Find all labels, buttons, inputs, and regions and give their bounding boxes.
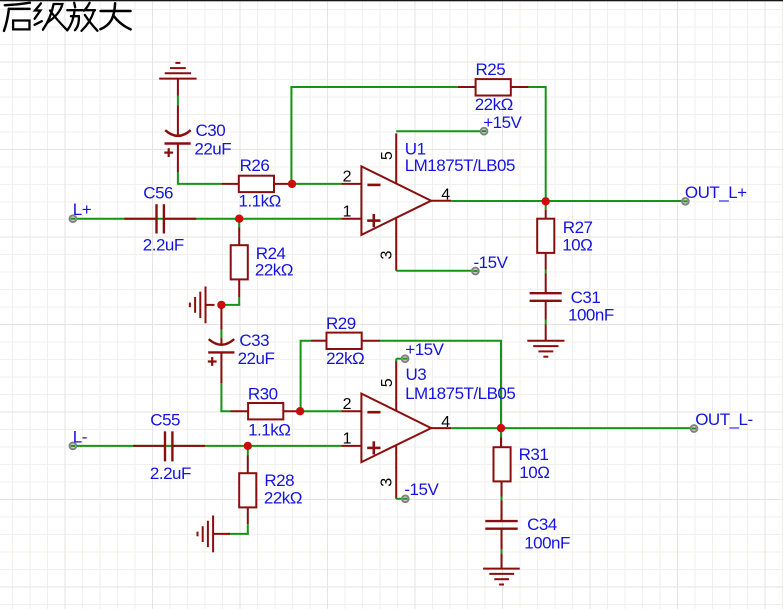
- svg-text:1.1kΩ: 1.1kΩ: [239, 192, 281, 211]
- junction node (L- / R28): [244, 442, 252, 450]
- capacitor C55: [133, 410, 205, 483]
- wire C30 to R26: [178, 172, 221, 184]
- svg-text:2.2uF: 2.2uF: [143, 235, 184, 254]
- svg-text:R29: R29: [326, 314, 356, 333]
- junction node (output / R27 / feedback): [542, 197, 550, 205]
- svg-text:C33: C33: [239, 331, 269, 350]
- svg-text:+15V: +15V: [483, 113, 522, 132]
- op-amp U3: [341, 361, 515, 499]
- wire feedback up (U3): [301, 341, 311, 412]
- wire L- input: [76, 445, 341, 447]
- svg-text:-15V: -15V: [404, 480, 439, 499]
- power pin +15V (U3): [396, 340, 444, 362]
- junction node (L+ / R24): [235, 215, 243, 223]
- svg-text:22uF: 22uF: [194, 140, 231, 159]
- wire R24 bottom to ground junction: [221, 304, 240, 306]
- ground GND2 (left-pointing earth): [190, 287, 215, 324]
- resistor R31: [494, 428, 550, 521]
- port L-: [70, 427, 87, 449]
- svg-text:OUT_L+: OUT_L+: [685, 183, 747, 202]
- char 级: [35, 3, 41, 18]
- svg-text:5: 5: [379, 378, 396, 387]
- power pin +15V (U1): [396, 113, 522, 134]
- svg-text:3: 3: [379, 251, 396, 260]
- capacitor C34: [485, 515, 570, 569]
- svg-text:4: 4: [441, 414, 450, 431]
- wire pin2 net (U3): [300, 410, 341, 412]
- svg-text:1.1kΩ: 1.1kΩ: [248, 420, 290, 439]
- capacitor C30 (polarized) with top ground GND1: [164, 79, 231, 172]
- char 后: [5, 3, 30, 5]
- port OUT_L-: [691, 410, 753, 432]
- svg-text:R28: R28: [264, 471, 294, 490]
- svg-text:C30: C30: [196, 121, 226, 140]
- wire output net OUT_L+: [451, 200, 682, 202]
- svg-text:1: 1: [343, 431, 352, 448]
- svg-text:10Ω: 10Ω: [562, 236, 592, 255]
- svg-text:100nF: 100nF: [568, 305, 614, 324]
- port L+: [70, 200, 92, 222]
- svg-text:100nF: 100nF: [524, 533, 570, 552]
- resistor R28: [239, 446, 302, 534]
- svg-text:2.2uF: 2.2uF: [150, 464, 191, 483]
- svg-text:22kΩ: 22kΩ: [264, 489, 302, 508]
- ground GND3: [527, 341, 564, 357]
- svg-text:L-: L-: [73, 427, 87, 446]
- capacitor C33 (polarized): [208, 308, 275, 383]
- svg-text:1: 1: [343, 204, 352, 221]
- svg-text:LM1875T/LB05: LM1875T/LB05: [405, 156, 515, 175]
- resistor R27: [537, 201, 592, 273]
- ground GND1 bars: [159, 63, 196, 79]
- svg-text:L+: L+: [73, 200, 92, 219]
- junction node (R30 / pin2 / feedback U3): [296, 407, 304, 415]
- wire pin2 net: [292, 183, 341, 185]
- svg-text:LM1875T/LB05: LM1875T/LB05: [405, 384, 515, 403]
- resistor R29: [311, 314, 380, 368]
- svg-text:10Ω: 10Ω: [519, 463, 549, 482]
- svg-text:C55: C55: [150, 410, 180, 429]
- svg-text:2: 2: [343, 169, 352, 186]
- resistor R25: [458, 60, 529, 114]
- svg-text:C34: C34: [527, 515, 557, 534]
- wire net L+ input horizontal: [76, 218, 341, 220]
- ground GND4: [483, 569, 520, 585]
- svg-text:22kΩ: 22kΩ: [326, 349, 364, 368]
- resistor R26: [221, 156, 292, 210]
- capacitor C31: [530, 274, 614, 341]
- svg-text:OUT_L-: OUT_L-: [695, 410, 752, 429]
- svg-text:22uF: 22uF: [238, 349, 275, 368]
- svg-text:R26: R26: [240, 156, 270, 175]
- ground GND5 (left-pointing earth): [198, 516, 231, 553]
- svg-text:C56: C56: [143, 183, 173, 202]
- wire feedback up-left: [291, 87, 457, 184]
- junction node (R24 / GND2 / C33): [217, 301, 225, 309]
- resistor R24: [231, 219, 293, 305]
- char 放: [74, 3, 75, 8]
- svg-text:3: 3: [379, 478, 396, 487]
- svg-text:R31: R31: [519, 445, 549, 464]
- svg-text:C31: C31: [571, 288, 601, 307]
- op-amp U1: [341, 133, 515, 270]
- power pin -15V (U3): [396, 480, 439, 502]
- svg-text:R25: R25: [476, 60, 506, 79]
- svg-text:-15V: -15V: [474, 253, 509, 272]
- capacitor C56: [124, 183, 196, 254]
- wire R28 bottom to GND5: [228, 533, 249, 535]
- resistor R30: [231, 384, 301, 439]
- wire output net OUT_L-: [451, 427, 690, 429]
- wire C33 to R30: [221, 383, 230, 411]
- power pin -15V (U1): [396, 253, 508, 274]
- junction node (R26 / pin2 / feedback): [288, 180, 296, 188]
- svg-text:2: 2: [343, 396, 352, 413]
- wire feedback right and down to output: [529, 87, 546, 201]
- svg-text:R30: R30: [248, 384, 278, 403]
- port OUT_L+: [682, 183, 747, 205]
- svg-text:22kΩ: 22kΩ: [255, 261, 293, 280]
- svg-text:U3: U3: [406, 365, 427, 384]
- junction node (output / R31 / feedback U3): [497, 424, 505, 432]
- svg-text:+15V: +15V: [405, 340, 444, 359]
- svg-text:R27: R27: [563, 218, 593, 237]
- wire feedback right and down to output (U3): [380, 341, 501, 428]
- char 大: [101, 10, 131, 13]
- svg-text:22kΩ: 22kΩ: [475, 95, 513, 114]
- svg-text:4: 4: [441, 187, 450, 204]
- title text 后级放大 (drawn strokes): [4, 3, 131, 31]
- toolbar edge line at top: [0, 0, 783, 1]
- svg-text:5: 5: [379, 151, 396, 160]
